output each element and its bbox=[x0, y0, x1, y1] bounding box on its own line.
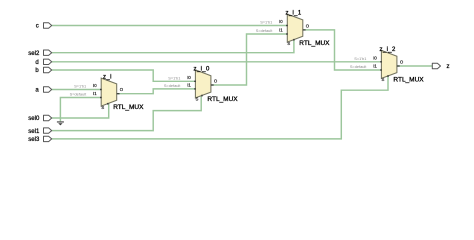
wire sel1 to U2 S bbox=[52, 95, 202, 130]
wire sel3 to U4 S bbox=[52, 76, 388, 139]
wire U3 O to U4 I1 bbox=[303, 30, 382, 70]
wire d to U4 I0 bbox=[52, 61, 382, 63]
svg-text:c: c bbox=[36, 24, 39, 30]
svg-text:S: S bbox=[101, 105, 104, 110]
svg-text:S: S bbox=[287, 41, 290, 46]
input port sel0 bbox=[28, 115, 51, 122]
svg-text:S=default: S=default bbox=[350, 64, 367, 69]
svg-text:S=1'b1: S=1'b1 bbox=[168, 75, 180, 80]
wire sel0 to U1 S bbox=[52, 103, 109, 118]
svg-text:I0: I0 bbox=[373, 55, 377, 60]
wire sel2 to U3 S bbox=[52, 39, 294, 52]
svg-text:z_i_1: z_i_1 bbox=[285, 11, 301, 17]
svg-text:d: d bbox=[35, 60, 38, 66]
svg-text:sel0: sel0 bbox=[28, 116, 40, 122]
ground bbox=[57, 121, 64, 125]
svg-text:S=1'b1: S=1'b1 bbox=[74, 84, 86, 89]
svg-text:I1: I1 bbox=[187, 83, 191, 88]
input port b bbox=[35, 67, 51, 74]
svg-text:I1: I1 bbox=[93, 91, 97, 96]
svg-text:sel3: sel3 bbox=[28, 137, 40, 143]
svg-text:sel1: sel1 bbox=[28, 129, 40, 135]
mux U3 z_i_1 RTL_MUX bbox=[256, 11, 330, 48]
svg-text:RTL_MUX: RTL_MUX bbox=[113, 104, 144, 111]
svg-text:I0: I0 bbox=[279, 19, 283, 24]
wire U4 O to port z bbox=[397, 65, 432, 67]
svg-text:z_i: z_i bbox=[103, 75, 112, 81]
svg-text:z_i_2: z_i_2 bbox=[380, 47, 396, 53]
wire ground to U1 I1 bbox=[60, 98, 101, 122]
input port a bbox=[35, 87, 51, 94]
input port sel2 bbox=[28, 50, 51, 57]
svg-text:sel2: sel2 bbox=[28, 51, 40, 57]
svg-text:S: S bbox=[196, 97, 199, 102]
wire U2 O to U3 I1 bbox=[211, 34, 287, 85]
svg-text:I1: I1 bbox=[373, 64, 377, 69]
svg-text:z: z bbox=[447, 64, 450, 70]
input port sel1 bbox=[28, 128, 51, 135]
svg-text:S=1'b1: S=1'b1 bbox=[260, 20, 272, 25]
svg-text:I0: I0 bbox=[187, 75, 191, 80]
wire a to U1 I0 bbox=[52, 89, 101, 91]
wire b to U2 I0 bbox=[52, 70, 196, 81]
svg-text:S: S bbox=[382, 77, 385, 82]
svg-text:S=default: S=default bbox=[70, 92, 87, 97]
svg-text:RTL_MUX: RTL_MUX bbox=[299, 40, 330, 47]
mux U1 z_i RTL_MUX bbox=[70, 75, 144, 112]
wire U1 O to U2 I1 bbox=[117, 89, 196, 94]
input port c bbox=[36, 23, 52, 30]
svg-text:S=1'b1: S=1'b1 bbox=[354, 56, 366, 61]
output port z bbox=[432, 63, 449, 70]
wire c to U3 I0 bbox=[52, 25, 288, 27]
mux U4 z_i_2 RTL_MUX bbox=[350, 47, 424, 84]
svg-text:S=default: S=default bbox=[164, 83, 181, 88]
svg-text:I0: I0 bbox=[93, 83, 97, 88]
svg-text:RTL_MUX: RTL_MUX bbox=[207, 96, 238, 103]
mux U2 z_i_0 RTL_MUX bbox=[164, 66, 238, 103]
svg-text:z_i_0: z_i_0 bbox=[194, 66, 210, 72]
input port sel3 bbox=[28, 136, 51, 143]
svg-text:I1: I1 bbox=[279, 28, 283, 33]
input port d bbox=[35, 59, 51, 66]
svg-text:S=default: S=default bbox=[256, 28, 273, 33]
svg-text:RTL_MUX: RTL_MUX bbox=[393, 76, 424, 83]
